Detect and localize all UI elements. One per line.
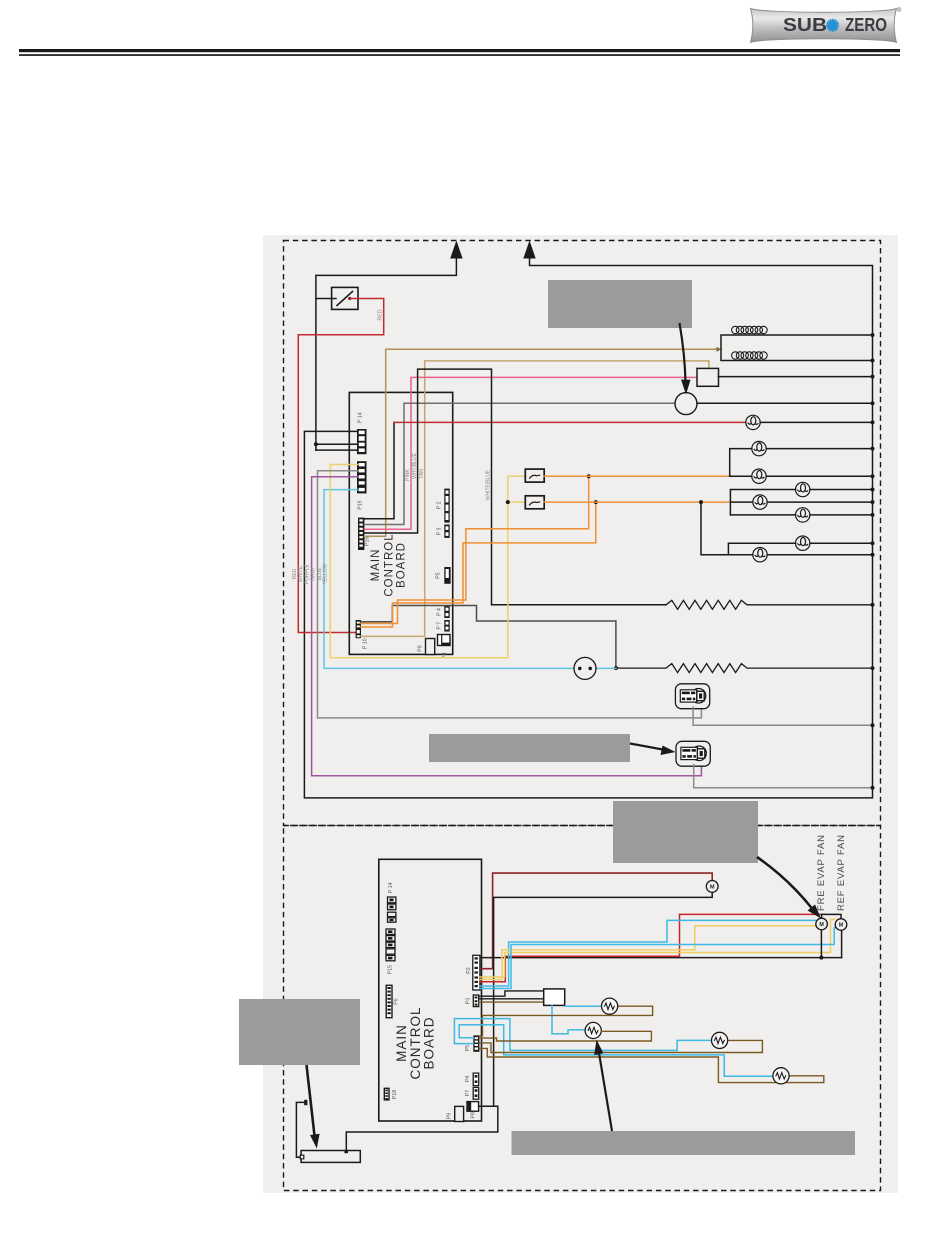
svg-text:P5: P5	[465, 1045, 471, 1051]
svg-text:PINK: PINK	[405, 469, 411, 481]
wire black fan top bracket	[822, 914, 841, 918]
lamp L7	[796, 536, 810, 550]
wire P14 pin4	[316, 449, 358, 451]
wire tan T1 return	[479, 1006, 652, 1036]
REF evap fan motor M	[835, 919, 847, 931]
junction dot orange B	[594, 500, 598, 504]
switch feed wire	[316, 298, 336, 300]
svg-text:WHITE: WHITE	[298, 565, 304, 582]
arrow C to FRE fan	[757, 857, 814, 911]
wire-bundle labels	[292, 563, 329, 584]
wire yellow A P2 to FRE fan	[480, 926, 816, 980]
connector P9 (upper board bottom)	[418, 639, 435, 655]
gray label box B (water valve)	[429, 734, 630, 762]
wire L8	[728, 554, 752, 556]
svg-text:P 14: P 14	[388, 882, 394, 893]
wire gray (P16 pin2 to compressor)	[364, 403, 675, 524]
wire orange B (P10 pin3 to L5 line)	[361, 502, 596, 627]
thermistor T1	[602, 998, 618, 1014]
wire cyan A P2 to FRE fan	[480, 920, 816, 986]
connector P9 (lower board bottom)	[447, 1106, 464, 1121]
condenser fan motor M	[706, 881, 718, 893]
junction dot tan	[717, 347, 722, 352]
wire black drop to L7/L8 bracket	[701, 502, 728, 555]
svg-text:P9: P9	[447, 1113, 453, 1119]
wire orange F1 to L3	[544, 475, 730, 477]
wire cyan B P2 to REF fan	[480, 928, 835, 989]
board label MAIN CONTROL BOARD (lower)	[394, 1006, 437, 1079]
connector P8 (lower board right)	[467, 1102, 479, 1119]
wire L4 line and bracket	[730, 490, 795, 515]
svg-text:P7: P7	[465, 1090, 471, 1096]
defrost terminator box	[697, 368, 719, 386]
wire FRE fan bottom	[820, 930, 822, 958]
lamp L3	[752, 469, 766, 483]
connector P2 (upper board right)	[437, 489, 450, 523]
heater coil 1	[732, 326, 768, 333]
coil 1 line	[721, 335, 873, 361]
svg-text:P15: P15	[388, 965, 394, 974]
wire pink (P16 pin3 to box)	[364, 377, 697, 529]
connector P7 (upper board right)	[437, 620, 450, 632]
dashed border upper section	[284, 241, 881, 826]
svg-text:ZERO: ZERO	[845, 15, 887, 35]
wire L3 to bus	[730, 475, 752, 477]
gray label box A (compressor)	[548, 280, 692, 328]
wire cyan P5 outer loop to T3	[454, 1019, 711, 1051]
wire brown P3 pin3 to relay box	[479, 1001, 544, 1003]
wire black P16 pin4 (WHT/BLUE) to resistor R1	[364, 369, 666, 605]
arrowhead 2	[523, 241, 535, 259]
wire red P2 to FRE fan	[480, 914, 822, 981]
red wire switch to P10	[298, 299, 383, 633]
arrow line-1 to P14	[316, 256, 457, 450]
lamp L8	[753, 548, 767, 562]
svg-text:P5: P5	[436, 572, 442, 578]
header rule thick	[19, 49, 900, 52]
wire black P3 pin1 to relay box	[479, 991, 544, 996]
relay box	[544, 989, 565, 1006]
svg-text:P2: P2	[466, 967, 472, 973]
wire P14 pin3	[316, 443, 358, 445]
svg-text:P 4: P 4	[437, 608, 443, 616]
wire L7 line and bracket	[728, 543, 795, 555]
wire orange A (P10 pin2 to L3 line)	[361, 476, 589, 623]
junction dot orange A	[587, 474, 591, 478]
wire cyan BLUE (P15 pin5 to R2)	[324, 490, 574, 669]
svg-text:FRE EVAP FAN: FRE EVAP FAN	[816, 834, 827, 911]
junction dot fan return	[819, 956, 823, 960]
connector P15 (upper board)	[357, 461, 367, 509]
wire REF fan bottom	[841, 930, 843, 957]
wire yellow (P15 pin1 to thermal fuses)	[330, 465, 525, 658]
bus junction dots	[871, 333, 875, 790]
svg-text:P16: P16	[365, 537, 371, 546]
wire WV2 return to bus	[694, 765, 873, 788]
wire cyan relay to thermistor T1	[565, 1005, 602, 1007]
svg-text:P 10: P 10	[363, 638, 369, 649]
lamp L5	[753, 495, 767, 509]
svg-text:MAIN: MAIN	[370, 549, 382, 582]
wire tan T2 return	[479, 1031, 651, 1041]
resistor R2 zigzag	[616, 664, 873, 673]
diagram panel background	[263, 235, 898, 1193]
switch contact dot	[348, 297, 351, 300]
wire black evap fans return	[481, 957, 842, 959]
svg-text:BOARD: BOARD	[422, 1016, 437, 1069]
svg-text:REF EVAP FAN: REF EVAP FAN	[836, 834, 847, 911]
connector P14 (upper board)	[357, 412, 367, 454]
terminal tick	[304, 1100, 307, 1105]
wire black P3 pin2 to relay box	[479, 998, 544, 1000]
wire tan T4 return	[479, 1048, 823, 1082]
connector P2 (lower board right)	[466, 955, 480, 990]
svg-text:P 7: P 7	[437, 622, 443, 630]
resistor R1 zigzag	[666, 600, 873, 609]
main control board outline (upper)	[349, 392, 452, 654]
connector P8 (upper board bottom)	[438, 635, 451, 659]
water valve WV1	[675, 684, 709, 709]
wire maroon P2 to condenser fan	[480, 873, 712, 969]
wire tan T3 return	[479, 1040, 762, 1052]
svg-text:P8: P8	[471, 1112, 477, 1118]
svg-text:P6: P6	[394, 998, 400, 1004]
thermistor T4	[773, 1068, 789, 1084]
svg-text:M: M	[839, 923, 844, 929]
wire cyan to junction	[596, 667, 616, 669]
header rule thin	[19, 54, 900, 56]
svg-text:P 14: P 14	[358, 412, 364, 423]
lamp L6	[796, 508, 810, 522]
wire ice maker to terminal	[296, 1102, 305, 1157]
svg-text:®: ®	[897, 7, 902, 14]
wire L1 to bus	[760, 421, 872, 423]
junction dot yellow	[506, 500, 510, 504]
switch blade	[337, 292, 353, 306]
arrow A to compressor	[680, 323, 686, 383]
connector P4 (upper board right)	[437, 606, 450, 618]
thermal fuse F1	[525, 469, 544, 482]
lamp L1	[746, 415, 760, 429]
drain connector circle	[574, 657, 596, 679]
svg-text:P18: P18	[392, 1090, 398, 1099]
wire L6	[730, 514, 795, 516]
connector P14 (lower board)	[388, 882, 396, 922]
svg-text:P 2: P 2	[437, 502, 443, 510]
connector P10 (upper board)	[356, 620, 369, 649]
svg-text:MAIN: MAIN	[394, 1024, 409, 1062]
thermistor T3	[712, 1032, 728, 1048]
Sub-Zero logo banner	[751, 7, 903, 43]
connector P3 (lower board right)	[466, 995, 479, 1007]
gray label box E (ice maker)	[239, 999, 360, 1065]
svg-text:M: M	[819, 922, 824, 928]
wire orange F2 to L5 bracket	[544, 501, 730, 503]
svg-text:BOARD: BOARD	[396, 542, 408, 588]
wire gray P10 pin1 to resistor R2	[361, 606, 616, 669]
svg-text:M: M	[710, 885, 715, 891]
connector P6 (lower board)	[386, 985, 399, 1017]
thermistor T2	[585, 1022, 601, 1038]
board label MAIN CONTROL BOARD (upper)	[370, 533, 408, 596]
light switch SW1 box	[332, 287, 358, 309]
svg-text:SUB: SUB	[783, 15, 827, 35]
connector P4 (lower board right)	[465, 1073, 479, 1086]
water valve WV2	[676, 741, 710, 766]
wire yellow B P2 to REF fan	[480, 920, 835, 978]
dashed border lower section	[284, 826, 881, 1191]
gray label box D (thermistors)	[512, 1131, 856, 1155]
svg-text:CONTROL: CONTROL	[384, 533, 396, 596]
lamp L2	[752, 441, 766, 455]
junction dot R2	[614, 666, 618, 670]
gray label box C (evap fans)	[613, 801, 758, 863]
wire compressor to bus	[697, 402, 873, 404]
connector P16 (upper board)	[358, 518, 371, 550]
ice maker component	[301, 1151, 360, 1163]
heater coil 2	[732, 352, 768, 359]
arrow D to T2	[599, 1050, 613, 1131]
connector P3 (upper board right)	[437, 525, 450, 538]
svg-text:P3: P3	[466, 998, 472, 1004]
FRE evap fan motor M	[816, 918, 828, 930]
compressor circle	[675, 393, 697, 415]
main control board outline (lower)	[379, 859, 482, 1121]
wire red to lamp L1	[394, 421, 746, 423]
lamp L4	[796, 482, 810, 496]
connector P5 (upper board right)	[436, 567, 451, 584]
wire black P16 pin1 riser	[364, 422, 394, 518]
wire L5	[730, 501, 752, 503]
wire purple (P15 pin3 to water valve WV2)	[312, 477, 702, 776]
svg-text:P4: P4	[465, 1076, 471, 1082]
wire P8 to ice maker	[346, 1106, 498, 1150]
svg-text:WHT/BLUE: WHT/BLUE	[412, 452, 418, 479]
wire gray (P15 pin2 to water valve WV1)	[318, 471, 702, 718]
arrowhead 1	[450, 241, 462, 259]
connector P18 (lower board)	[384, 1088, 398, 1100]
wire WV1 return to bus	[693, 707, 872, 725]
wire L2 line and bracket	[730, 449, 752, 477]
wire cyan relay to thermistor T2	[552, 1005, 585, 1034]
connector P5 (lower board right)	[465, 1035, 479, 1051]
wire cyan P5 inner loop to T4	[459, 1025, 773, 1077]
svg-text:RED: RED	[378, 309, 384, 320]
svg-text:P15: P15	[358, 500, 364, 509]
wire tan A (P16 pin5 to coils)	[364, 349, 721, 536]
wire yellow branch to fuse 2	[508, 501, 526, 503]
svg-text:WHITE/BLUE: WHITE/BLUE	[486, 469, 492, 500]
svg-text:YELLOW: YELLOW	[323, 563, 329, 584]
wire tan B (P10 pin5 to defrost terminator box)	[361, 361, 709, 637]
connector P15 (lower board)	[386, 929, 395, 974]
connector P7 (lower board right)	[465, 1087, 479, 1099]
svg-text:✺: ✺	[826, 17, 840, 36]
arrow line-2 / line bus	[304, 256, 872, 798]
thermal fuse F2	[525, 496, 544, 509]
wire box to bus	[719, 376, 873, 378]
junction dot	[314, 442, 318, 446]
svg-text:P9: P9	[418, 645, 424, 651]
svg-text:GRAY: GRAY	[311, 566, 317, 580]
arrow E to ice maker	[307, 1065, 316, 1140]
arrow B to WV2	[630, 744, 668, 751]
junction dot L5	[699, 500, 703, 504]
svg-text:P 3: P 3	[437, 528, 443, 536]
wire black condenser fan return	[494, 892, 713, 1106]
svg-text:TAN: TAN	[419, 469, 425, 479]
